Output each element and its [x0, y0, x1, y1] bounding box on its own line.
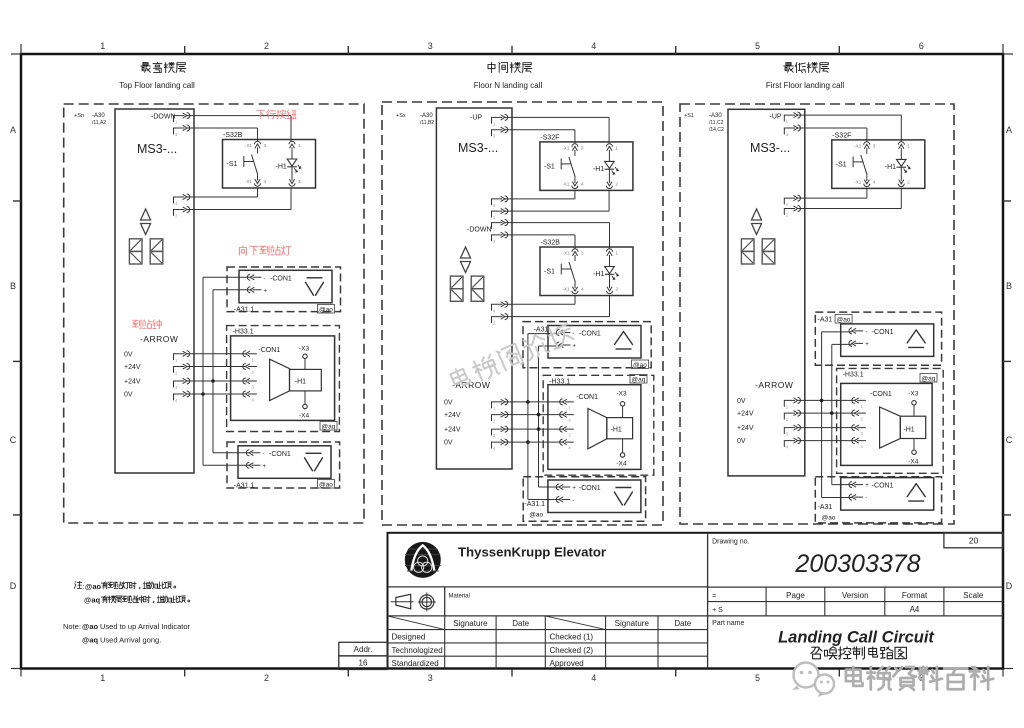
svg-text:MS3-...: MS3-... [458, 141, 498, 155]
svg-text:5: 5 [755, 41, 760, 51]
svg-text:+: + [865, 483, 869, 489]
svg-text:-ARROW: -ARROW [140, 334, 178, 344]
svg-text:-CON1: -CON1 [579, 485, 601, 492]
svg-text:-: - [865, 496, 867, 502]
svg-text:+: + [263, 464, 267, 470]
svg-text:-: - [573, 331, 575, 337]
svg-text:0V: 0V [444, 399, 453, 406]
svg-text:-H1: -H1 [593, 271, 604, 278]
svg-text:Checked (1): Checked (1) [550, 633, 594, 642]
svg-text:+24V: +24V [737, 411, 754, 418]
svg-text:Drawing no.: Drawing no. [712, 539, 749, 546]
svg-text:Landing Call Circuit: Landing Call Circuit [778, 629, 935, 647]
svg-text:Material: Material [449, 594, 470, 600]
svg-text:4: 4 [591, 673, 596, 683]
svg-text:1: 1 [100, 673, 105, 683]
svg-text:3: 3 [428, 673, 433, 683]
svg-text:6: 6 [919, 41, 924, 51]
svg-text:-A30: -A30 [92, 113, 105, 119]
svg-text:@ao: @ao [319, 307, 333, 314]
svg-text:-H33.1: -H33.1 [843, 371, 864, 378]
svg-text:A: A [10, 125, 16, 135]
svg-text:-: - [865, 329, 867, 335]
svg-text:+24V: +24V [444, 427, 461, 434]
svg-text:-A31.1: -A31.1 [524, 501, 545, 508]
svg-text:-X3: -X3 [299, 346, 310, 353]
svg-text:-X3: -X3 [617, 391, 628, 398]
svg-text:-CON1: -CON1 [872, 329, 894, 336]
svg-text:+: + [865, 342, 869, 348]
svg-text:Note:: Note: [63, 622, 81, 631]
svg-text:+S1: +S1 [684, 113, 694, 119]
svg-text:Addr.: Addr. [354, 645, 373, 654]
svg-text:+Sn: +Sn [74, 113, 84, 119]
svg-text:Technologized: Technologized [392, 646, 443, 655]
svg-text:-CON1: -CON1 [576, 394, 598, 401]
svg-text:-X4: -X4 [299, 413, 310, 420]
svg-text:+: + [572, 486, 576, 492]
svg-text:@aq: @aq [322, 424, 336, 431]
svg-text:/11,A2: /11,A2 [92, 120, 106, 126]
svg-text:+: + [264, 288, 268, 294]
svg-text:-CON1: -CON1 [870, 391, 892, 398]
svg-text:-A30: -A30 [709, 113, 722, 119]
svg-text:A: A [1006, 125, 1012, 135]
svg-text:B: B [1006, 281, 1012, 291]
svg-text:A4: A4 [910, 605, 920, 614]
svg-text:=: = [712, 593, 716, 600]
svg-text:Part name: Part name [712, 620, 744, 627]
svg-text:-S1: -S1 [544, 163, 555, 170]
svg-text:-X1: -X1 [563, 251, 571, 256]
svg-text:-A30: -A30 [420, 113, 433, 119]
svg-text:-H33.1: -H33.1 [549, 378, 570, 385]
svg-text:0V: 0V [444, 440, 453, 447]
svg-text:200303378: 200303378 [794, 550, 920, 578]
svg-text:-S1: -S1 [227, 161, 238, 168]
svg-text:-X1: -X1 [854, 179, 862, 184]
svg-text:+24V: +24V [124, 364, 141, 371]
svg-text:-H1: -H1 [611, 427, 622, 434]
svg-text:-CON1: -CON1 [269, 451, 291, 458]
svg-text:-X1: -X1 [854, 143, 862, 148]
svg-text:+Sx: +Sx [396, 113, 406, 119]
svg-text:5: 5 [755, 673, 760, 683]
svg-text:-S32B: -S32B [223, 132, 243, 139]
svg-text:-H1: -H1 [885, 164, 896, 171]
svg-text:-CON1: -CON1 [270, 275, 292, 282]
svg-text:Floor N landing call: Floor N landing call [474, 81, 543, 90]
svg-text:-S32F: -S32F [540, 134, 559, 141]
svg-text:-UP: -UP [470, 115, 482, 122]
svg-text:MS3-...: MS3-... [137, 142, 177, 156]
svg-text:Version: Version [842, 591, 869, 600]
svg-text:-S1: -S1 [836, 161, 847, 168]
svg-text:Checked (2): Checked (2) [550, 646, 594, 655]
svg-text:@ao: @ao [633, 362, 647, 369]
svg-text:-H1: -H1 [903, 427, 914, 434]
svg-text:-X3: -X3 [908, 391, 919, 398]
svg-text:0V: 0V [124, 392, 133, 399]
svg-text:-A31.1: -A31.1 [234, 307, 255, 314]
svg-text:-X1: -X1 [245, 143, 253, 148]
svg-text:-A31.1: -A31.1 [234, 483, 255, 490]
svg-text:-: - [572, 498, 574, 504]
svg-text:+24V: +24V [444, 412, 461, 419]
svg-text:@ao: @ao [529, 512, 543, 519]
svg-text:Approved: Approved [550, 659, 584, 668]
svg-text:@ao: @ao [837, 317, 851, 324]
svg-text:-X4: -X4 [908, 459, 919, 466]
svg-text:+24V: +24V [737, 425, 754, 432]
svg-text:-X4: -X4 [617, 461, 628, 468]
svg-text:/11,B2: /11,B2 [420, 120, 434, 126]
svg-text:Page: Page [786, 591, 805, 600]
svg-text:0V: 0V [737, 438, 746, 445]
svg-text:-DOWN: -DOWN [151, 114, 176, 121]
svg-text:Used to up Arrival Indicator: Used to up Arrival Indicator [100, 622, 191, 631]
svg-text:-S32F: -S32F [832, 132, 851, 139]
svg-text:+: + [573, 344, 577, 350]
svg-text:-X1: -X1 [562, 181, 570, 186]
svg-text:-H33.1: -H33.1 [233, 329, 254, 336]
svg-text:2: 2 [264, 41, 269, 51]
svg-text:@aq: @aq [82, 636, 98, 645]
svg-text:-CON1: -CON1 [258, 347, 280, 354]
svg-text:D: D [10, 581, 17, 591]
svg-text:Top Floor landing call: Top Floor landing call [119, 81, 195, 90]
svg-text:-H1: -H1 [276, 164, 287, 171]
svg-text:Date: Date [674, 619, 691, 628]
svg-text:C: C [10, 435, 17, 445]
svg-text:ThyssenKrupp Elevator: ThyssenKrupp Elevator [458, 545, 606, 560]
svg-text:MS3-...: MS3-... [750, 141, 790, 155]
svg-text:-A31: -A31 [818, 504, 833, 511]
svg-text:-ARROW: -ARROW [755, 380, 793, 390]
svg-text:@aq: @aq [922, 376, 936, 383]
svg-text:D: D [1006, 581, 1013, 591]
svg-text:Date: Date [512, 619, 529, 628]
svg-text:B: B [10, 281, 16, 291]
svg-text:0V: 0V [737, 398, 746, 405]
svg-text:/14,C2: /14,C2 [709, 127, 724, 133]
svg-text:-X1: -X1 [563, 287, 571, 292]
svg-text:Signature: Signature [615, 619, 650, 628]
svg-text:Format: Format [902, 591, 928, 600]
svg-text:2: 2 [264, 673, 269, 683]
svg-text:-: - [264, 276, 266, 282]
svg-text:Signature: Signature [453, 619, 488, 628]
svg-text:-X1: -X1 [562, 145, 570, 150]
svg-text:/11,C2: /11,C2 [709, 120, 724, 126]
svg-text:4: 4 [591, 41, 596, 51]
svg-text:Standardized: Standardized [392, 659, 439, 668]
svg-text:16: 16 [359, 659, 368, 668]
svg-text:-CON1: -CON1 [579, 331, 601, 338]
svg-text:-A31: -A31 [534, 327, 549, 334]
svg-text:@ao: @ao [85, 582, 101, 591]
svg-text:-A31: -A31 [818, 317, 833, 324]
svg-text:First Floor landing call: First Floor landing call [766, 81, 844, 90]
svg-text:20: 20 [969, 536, 979, 546]
svg-text:C: C [1006, 435, 1013, 445]
svg-text:1: 1 [100, 41, 105, 51]
svg-text:+ S: + S [712, 607, 723, 614]
svg-text:-: - [263, 451, 265, 457]
svg-text:-H1: -H1 [295, 379, 306, 386]
svg-text:-S32B: -S32B [541, 240, 561, 247]
svg-text:@ao: @ao [319, 482, 333, 489]
svg-text:@aq: @aq [84, 596, 100, 605]
svg-text:Designed: Designed [392, 633, 426, 642]
svg-text:-UP: -UP [770, 114, 782, 121]
svg-text:Used Arrival gong.: Used Arrival gong. [100, 636, 161, 645]
svg-text:-CON1: -CON1 [872, 483, 894, 490]
svg-text:@aq: @aq [632, 377, 646, 384]
svg-text:@ao: @ao [822, 515, 836, 522]
svg-text:-DOWN: -DOWN [467, 227, 492, 234]
svg-text:-S1: -S1 [544, 269, 555, 276]
svg-text:+24V: +24V [124, 379, 141, 386]
svg-text:0V: 0V [124, 351, 133, 358]
svg-text:3: 3 [428, 41, 433, 51]
svg-text:Scale: Scale [963, 591, 984, 600]
svg-text:@ao: @ao [82, 622, 98, 631]
svg-text:-H1: -H1 [593, 166, 604, 173]
svg-text:-X1: -X1 [245, 179, 253, 184]
